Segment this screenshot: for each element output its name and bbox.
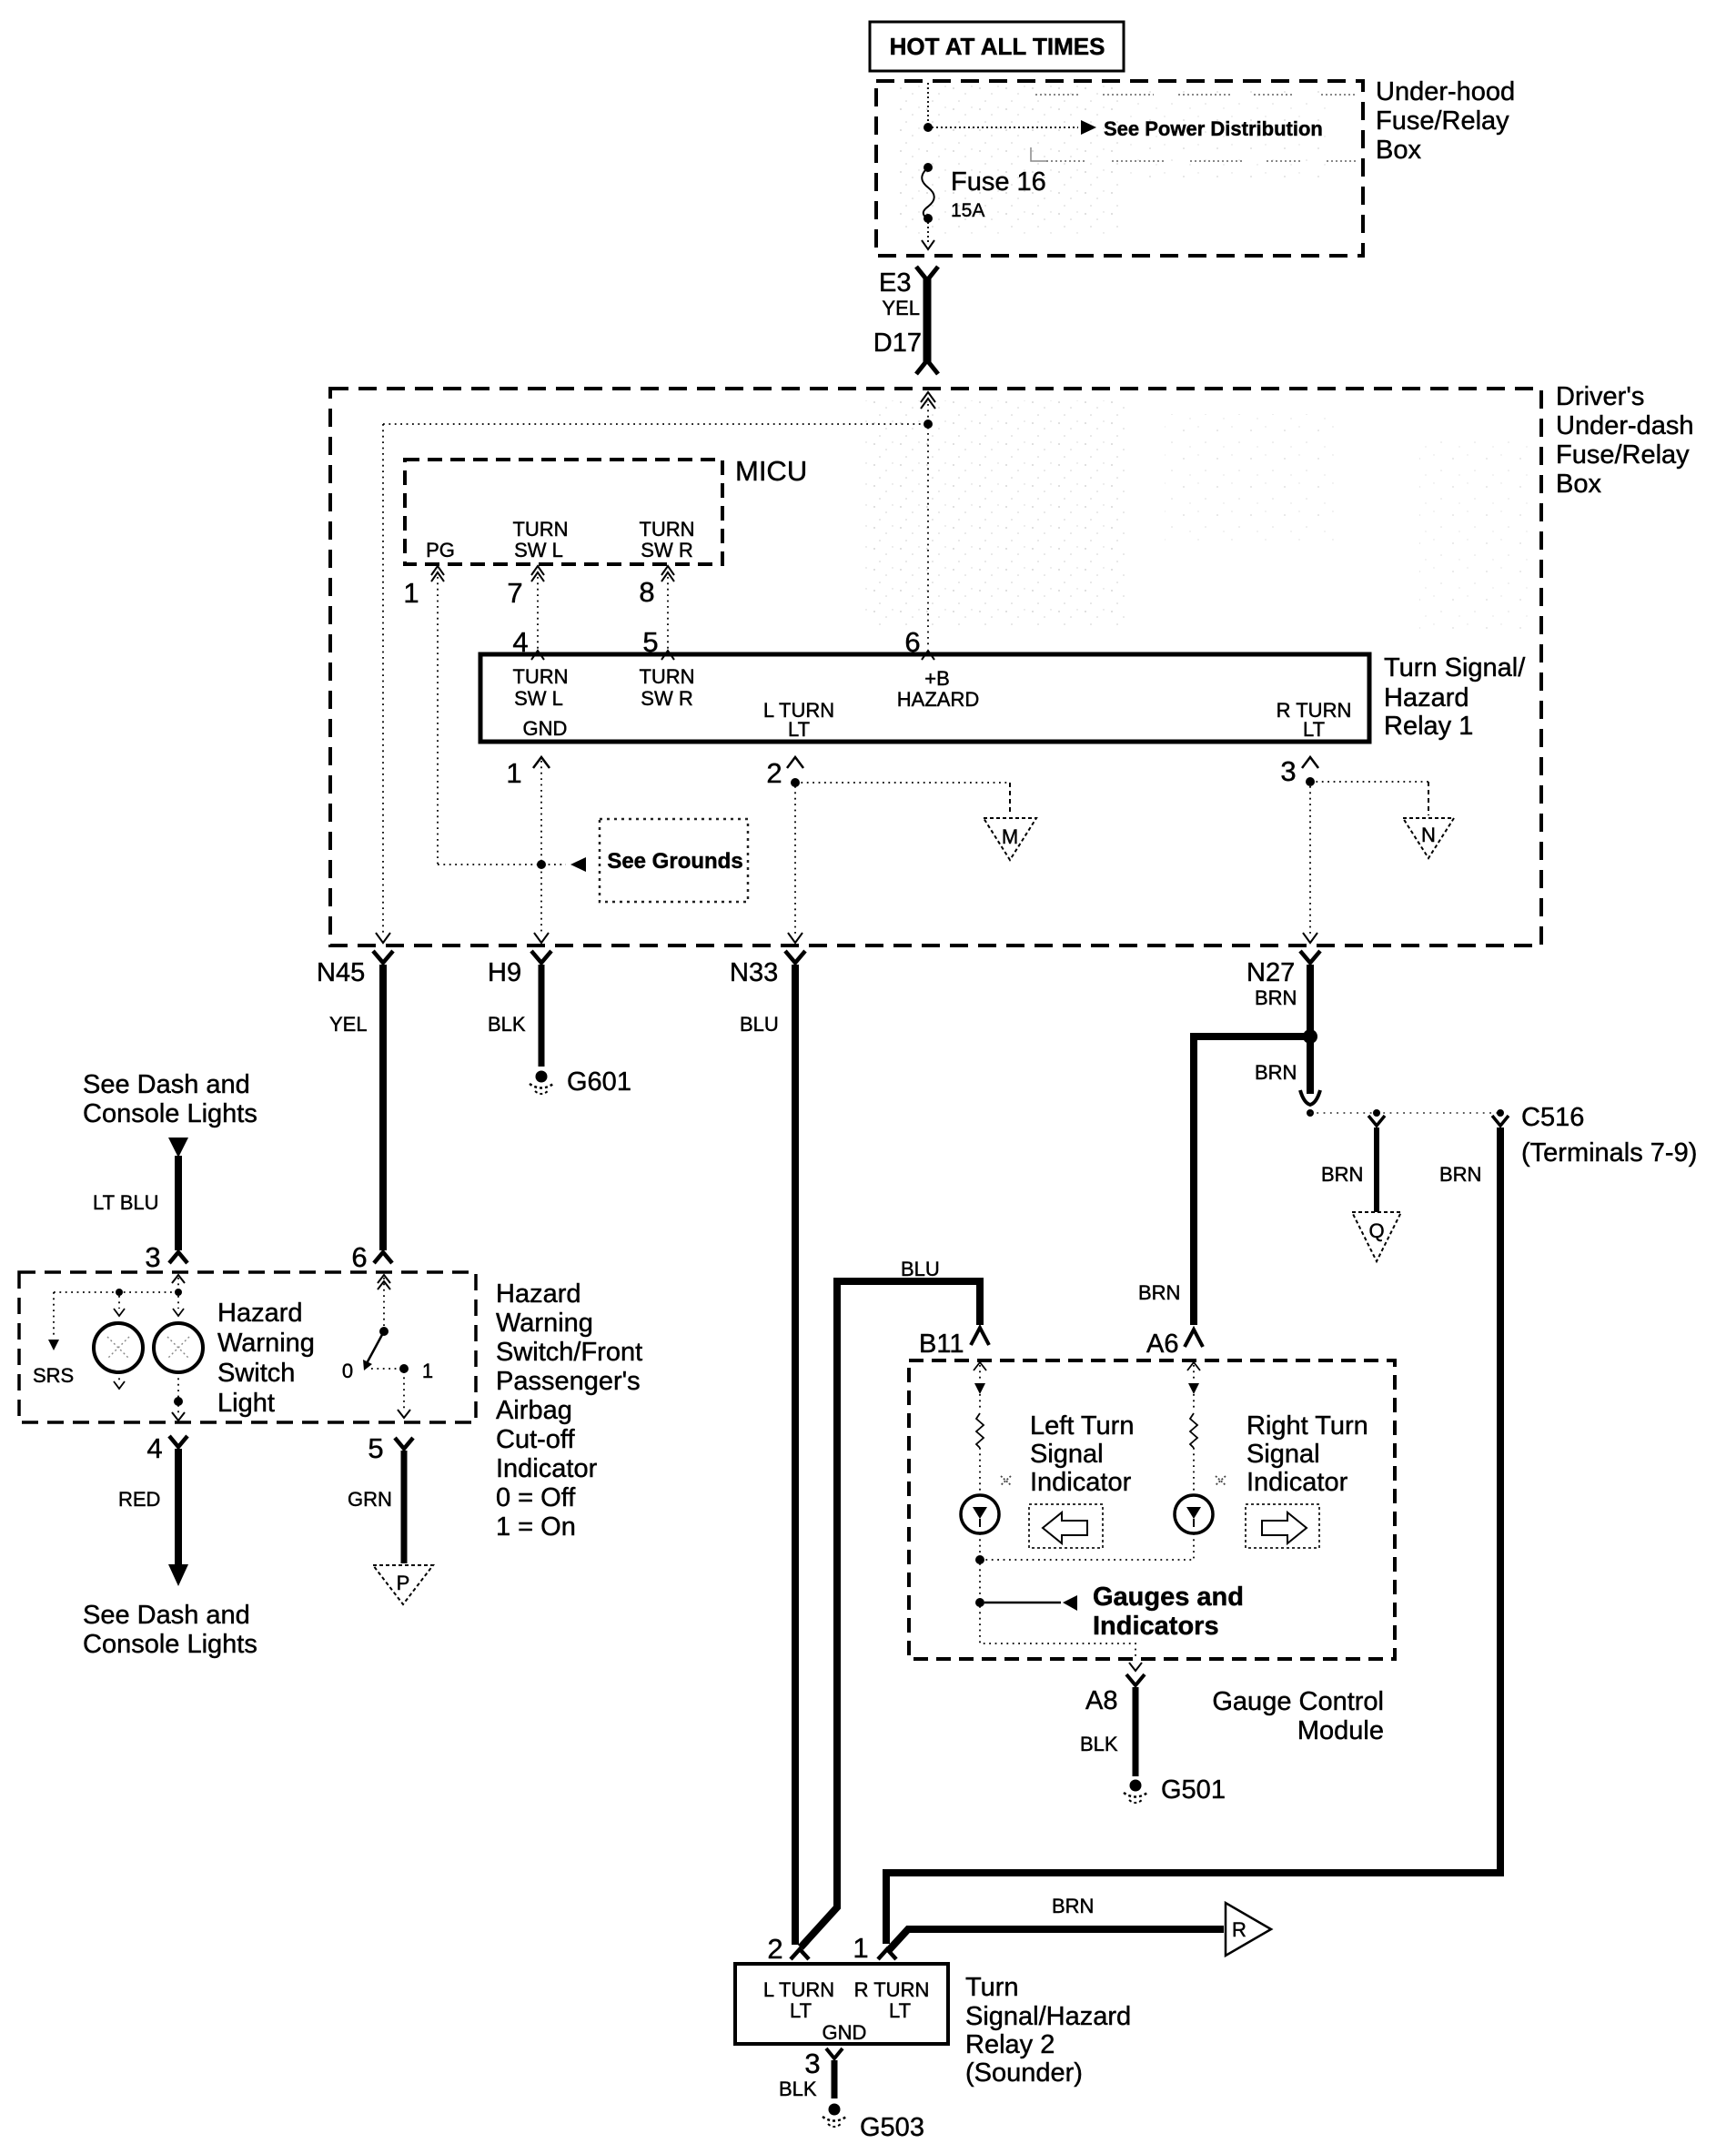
svg-text:Under-hood: Under-hood	[1376, 77, 1515, 106]
svg-text:6: 6	[351, 1241, 367, 1273]
svg-text:BRN: BRN	[1255, 986, 1297, 1009]
svg-text:5: 5	[368, 1432, 383, 1464]
svg-text:HAZARD: HAZARD	[897, 688, 979, 711]
svg-text:4: 4	[146, 1432, 162, 1464]
svg-text:Signal/Hazard: Signal/Hazard	[965, 2002, 1131, 2031]
svg-text:Gauge Control: Gauge Control	[1212, 1687, 1384, 1716]
svg-text:Console Lights: Console Lights	[83, 1630, 257, 1659]
svg-text:Module: Module	[1297, 1716, 1384, 1745]
svg-text:Fuse 16: Fuse 16	[951, 167, 1046, 197]
svg-text:Right Turn: Right Turn	[1246, 1411, 1368, 1441]
svg-text:Indicators: Indicators	[1093, 1612, 1219, 1641]
svg-text:1: 1	[422, 1360, 433, 1382]
svg-text:Turn Signal/: Turn Signal/	[1384, 653, 1526, 683]
svg-text:GRN: GRN	[348, 1488, 392, 1511]
svg-text:E3: E3	[879, 268, 911, 298]
svg-text:0: 0	[342, 1360, 353, 1382]
svg-text:Signal: Signal	[1030, 1440, 1104, 1469]
svg-text:8: 8	[639, 576, 654, 608]
svg-text:1: 1	[506, 757, 521, 789]
svg-text:BLK: BLK	[779, 2078, 817, 2100]
svg-text:0 = Off: 0 = Off	[496, 1483, 576, 1512]
svg-text:SW L: SW L	[514, 687, 563, 710]
svg-text:Warning: Warning	[217, 1329, 315, 1358]
svg-text:Driver's: Driver's	[1556, 382, 1644, 411]
svg-text:HOT AT ALL TIMES: HOT AT ALL TIMES	[890, 33, 1105, 60]
svg-text:G501: G501	[1161, 1775, 1226, 1805]
svg-text:1: 1	[403, 577, 419, 609]
svg-text:Console Lights: Console Lights	[83, 1099, 257, 1128]
svg-text:(Sounder): (Sounder)	[965, 2058, 1083, 2088]
svg-text:C516: C516	[1521, 1103, 1584, 1132]
svg-text:B11: B11	[919, 1330, 964, 1359]
svg-text:1: 1	[853, 1932, 868, 1964]
svg-text:A6: A6	[1146, 1330, 1178, 1359]
svg-text:Indicator: Indicator	[1030, 1468, 1132, 1497]
svg-text:Indicator: Indicator	[1246, 1468, 1348, 1497]
svg-text:Airbag: Airbag	[496, 1396, 572, 1425]
svg-text:Gauges and: Gauges and	[1093, 1583, 1244, 1612]
svg-text:Turn: Turn	[965, 1973, 1019, 2002]
svg-text:MICU: MICU	[735, 455, 807, 487]
svg-text:A8: A8	[1085, 1686, 1117, 1715]
svg-text:BLK: BLK	[488, 1013, 526, 1036]
svg-text:Switch/Front: Switch/Front	[496, 1338, 642, 1367]
svg-text:Hazard: Hazard	[217, 1299, 303, 1328]
svg-text:Relay 2: Relay 2	[965, 2030, 1055, 2059]
svg-text:N: N	[1421, 824, 1436, 846]
svg-text:BLU: BLU	[901, 1258, 940, 1280]
svg-text:Switch: Switch	[217, 1359, 295, 1388]
svg-text:Box: Box	[1556, 470, 1601, 499]
svg-text:TURN: TURN	[512, 518, 568, 541]
svg-text:G503: G503	[860, 2113, 924, 2142]
svg-text:2: 2	[767, 1933, 782, 1965]
svg-text:BRN: BRN	[1052, 1895, 1094, 1917]
svg-text:SW R: SW R	[641, 539, 692, 561]
svg-text:Left Turn: Left Turn	[1030, 1411, 1134, 1441]
svg-text:PG: PG	[426, 539, 455, 561]
svg-text:LT: LT	[1303, 718, 1325, 741]
svg-text:RED: RED	[118, 1488, 160, 1511]
svg-text:15A: 15A	[951, 200, 984, 221]
svg-text:LT: LT	[790, 1999, 812, 2022]
svg-text:Q: Q	[1368, 1219, 1384, 1242]
svg-text:SW L: SW L	[514, 539, 563, 561]
svg-text:BRN: BRN	[1255, 1061, 1297, 1084]
svg-text:SW R: SW R	[641, 687, 692, 710]
svg-text:YEL: YEL	[882, 297, 920, 319]
svg-text:G601: G601	[567, 1067, 631, 1097]
svg-text:Indicator: Indicator	[496, 1454, 598, 1483]
svg-text:Box: Box	[1376, 136, 1421, 165]
svg-text:LT: LT	[889, 1999, 911, 2022]
svg-text:See Power Distribution: See Power Distribution	[1104, 117, 1323, 140]
svg-text:M: M	[1002, 825, 1018, 848]
svg-text:Hazard: Hazard	[496, 1279, 581, 1309]
svg-text:BRN: BRN	[1439, 1163, 1481, 1186]
svg-text:Relay 1: Relay 1	[1384, 712, 1473, 741]
svg-text:BRN: BRN	[1138, 1281, 1180, 1304]
svg-text:BLK: BLK	[1080, 1733, 1118, 1755]
svg-text:R: R	[1232, 1918, 1246, 1941]
svg-text:GND: GND	[823, 2021, 867, 2044]
svg-text:(Terminals 7-9): (Terminals 7-9)	[1521, 1138, 1697, 1168]
svg-text:H9: H9	[488, 958, 521, 987]
svg-text:Light: Light	[217, 1389, 275, 1418]
svg-text:Cut-off: Cut-off	[496, 1425, 575, 1454]
svg-text:3: 3	[804, 2048, 820, 2079]
svg-text:1 = On: 1 = On	[496, 1512, 576, 1542]
svg-text:N45: N45	[317, 958, 365, 987]
svg-text:TURN: TURN	[639, 665, 694, 688]
svg-text:See Dash and: See Dash and	[83, 1070, 250, 1099]
svg-text:Passenger's: Passenger's	[496, 1367, 641, 1396]
svg-text:+B: +B	[924, 667, 950, 690]
svg-text:R TURN: R TURN	[854, 1978, 930, 2001]
svg-text:Fuse/Relay: Fuse/Relay	[1556, 440, 1690, 470]
svg-text:Signal: Signal	[1246, 1440, 1320, 1469]
svg-text:L TURN: L TURN	[763, 1978, 834, 2001]
svg-text:N33: N33	[730, 958, 778, 987]
svg-text:GND: GND	[523, 717, 568, 740]
svg-text:3: 3	[145, 1241, 160, 1273]
svg-text:BRN: BRN	[1321, 1163, 1363, 1186]
svg-text:BLU: BLU	[740, 1013, 779, 1036]
svg-text:Fuse/Relay: Fuse/Relay	[1376, 106, 1509, 136]
svg-text:N27: N27	[1246, 958, 1295, 987]
svg-text:TURN: TURN	[639, 518, 694, 541]
svg-text:P: P	[397, 1572, 410, 1594]
svg-text:LT BLU: LT BLU	[93, 1191, 159, 1214]
svg-text:2: 2	[766, 757, 782, 789]
svg-text:D17: D17	[873, 329, 922, 358]
svg-text:Warning: Warning	[496, 1309, 593, 1338]
svg-text:See Dash and: See Dash and	[83, 1601, 250, 1630]
svg-text:7: 7	[507, 577, 522, 609]
svg-text:Hazard: Hazard	[1384, 683, 1469, 713]
svg-text:3: 3	[1280, 755, 1296, 787]
svg-text:TURN: TURN	[512, 665, 568, 688]
svg-text:SRS: SRS	[33, 1364, 74, 1387]
svg-text:LT: LT	[788, 718, 810, 741]
svg-text:See Grounds: See Grounds	[607, 849, 742, 874]
svg-text:Under-dash: Under-dash	[1556, 411, 1694, 440]
svg-text:YEL: YEL	[329, 1013, 368, 1036]
